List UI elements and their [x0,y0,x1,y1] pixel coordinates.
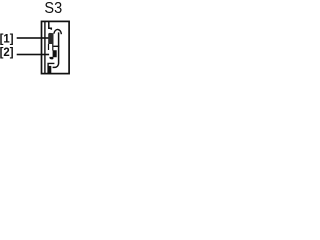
switch S3 inner left wall [44,22,46,74]
svg-text:[2]: [2] [0,45,14,60]
switch S3 pivot dome (semicircle) [54,29,62,34]
switch S3 contact blade 2 (black block, pin 2 target) [49,50,56,59]
switch S3 contact blade 1 (dark block, pin 1 target) [48,33,53,44]
switch S3 top bracket (plunger guide) [49,22,52,30]
switch S3 bottom terminal block [48,66,51,74]
svg-text:[1]: [1] [0,31,14,46]
switch S3 body outline (outer box) [42,21,70,73]
switch S3 contact blade 1 lower edges [48,44,50,50]
wire: leader line from [1] to switch contact [17,37,49,39]
wire: leader line from [2] to switch contact [17,54,49,56]
svg-text:S3: S3 [44,0,62,17]
switch S3 inner shelf line [53,45,59,47]
switch S3 bottom step line [48,63,54,73]
switch S3 actuator rod with bottom hook [53,32,59,67]
